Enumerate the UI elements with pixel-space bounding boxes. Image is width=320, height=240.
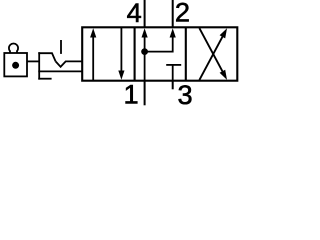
svg-text:4: 4	[127, 0, 142, 28]
middle box arrowhead up to 4	[142, 28, 148, 37]
position divider 1	[134, 27, 136, 80]
svg-text:1: 1	[123, 79, 138, 108]
svg-text:2: 2	[175, 0, 190, 28]
wire padlock to lever post	[27, 60, 39, 62]
blocked port 3 tee bar	[166, 64, 181, 66]
padlock actuator box	[4, 53, 27, 76]
middle box line to port 4	[144, 35, 146, 52]
detent notch bar	[56, 61, 83, 66]
detent pin	[60, 40, 62, 54]
port 2 stub	[172, 0, 174, 27]
padlock shackle	[9, 44, 18, 53]
right box diagonal 1-2	[199, 36, 223, 80]
left box arrowhead down	[118, 71, 124, 80]
port 3 stub	[172, 81, 174, 90]
left box flow line 2-3	[120, 27, 122, 73]
left box flow line 1-4	[92, 35, 94, 81]
middle box line dot to port 1	[144, 52, 146, 81]
lever post	[38, 52, 40, 79]
port 1 stub	[144, 81, 146, 106]
svg-text:3: 3	[178, 79, 193, 108]
middle box arrowhead up to 2	[170, 28, 176, 37]
port 4 stub	[144, 0, 146, 27]
junction dot	[141, 48, 148, 55]
blocked port 3 tee stem	[172, 65, 174, 81]
lever lower link	[38, 70, 82, 72]
right box diagonal 4-3	[199, 28, 223, 72]
middle box elbow dot to port 2	[145, 35, 173, 52]
valve body outline	[82, 27, 237, 80]
left box arrowhead up	[90, 28, 96, 37]
right box arrowhead up-right	[220, 28, 227, 38]
position divider 2	[185, 27, 187, 80]
lever foot	[38, 78, 51, 80]
right box arrowhead down-right	[220, 70, 227, 80]
padlock keyhole dot	[12, 62, 19, 69]
lever top bar	[38, 53, 55, 61]
